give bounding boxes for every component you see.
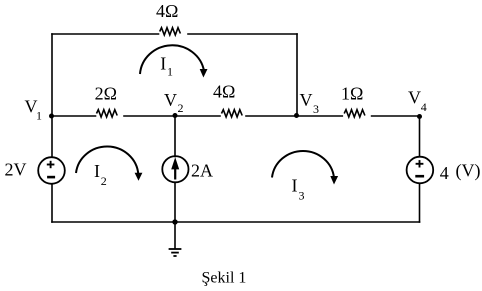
- svg-text:(V): (V): [456, 161, 481, 182]
- svg-text:4Ω: 4Ω: [213, 82, 235, 102]
- svg-text:V: V: [408, 88, 421, 108]
- svg-text:1: 1: [36, 109, 42, 123]
- svg-text:1: 1: [167, 65, 173, 79]
- svg-text:2Ω: 2Ω: [95, 83, 117, 103]
- svg-text:4: 4: [440, 163, 449, 183]
- svg-text:V: V: [164, 90, 177, 110]
- svg-text:2A: 2A: [191, 161, 213, 181]
- svg-text:V: V: [300, 90, 313, 110]
- svg-text:3: 3: [313, 102, 319, 116]
- svg-text:I: I: [292, 176, 298, 196]
- svg-text:Şekil 1: Şekil 1: [202, 270, 247, 287]
- svg-text:I: I: [160, 53, 166, 73]
- svg-text:1Ω: 1Ω: [341, 83, 363, 103]
- svg-text:I: I: [94, 161, 100, 181]
- svg-text:2: 2: [178, 101, 184, 115]
- svg-text:3: 3: [299, 189, 305, 203]
- svg-text:2: 2: [101, 174, 107, 188]
- svg-text:2V: 2V: [5, 160, 27, 180]
- svg-text:4Ω: 4Ω: [156, 1, 178, 21]
- svg-text:4: 4: [421, 100, 427, 114]
